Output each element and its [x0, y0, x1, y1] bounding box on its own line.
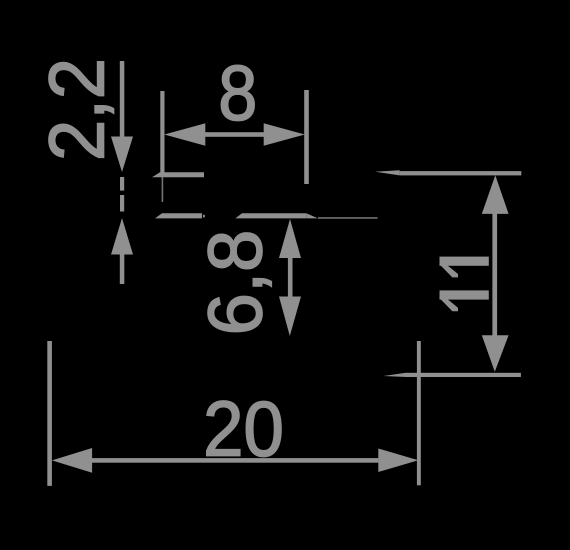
dim 11 top arrowhead [482, 175, 509, 214]
svg-text:6,8: 6,8 [194, 230, 279, 336]
dim 2,2 up arrowhead [111, 218, 133, 255]
wire dim 8 line [205, 132, 264, 137]
dim 8 right arrowhead [264, 123, 305, 145]
dim 8 left extension line [160, 91, 164, 177]
dim 11 bottom arrowhead [482, 335, 509, 372]
dim 20 right arrowhead [378, 449, 418, 473]
svg-text:2,2: 2,2 [34, 58, 121, 161]
dim 20 left extension line [47, 341, 52, 486]
edge stub A (top surface y=175) [152, 172, 204, 177]
dim 8 left extension thin lower part [162, 177, 164, 202]
wire dim 2,2 upper tail [120, 61, 125, 137]
dim 20 right extension line [417, 341, 421, 485]
edge line top-right (y=173) with taper [375, 170, 400, 175]
dim 20 left arrowhead [52, 448, 92, 473]
dimension label 11 digit 1 (rotated glyph: bar + flag) [439, 257, 489, 278]
edge line bottom-right (y=375) with taper [383, 373, 406, 377]
edge stub B right with taper [235, 213, 306, 218]
wire dim 2,2 middle segment upper [120, 177, 124, 191]
edge stub B thin tail [318, 217, 378, 219]
svg-text:8: 8 [218, 49, 257, 136]
dim 8 left arrowhead [164, 123, 205, 145]
dim 8 right extension line [304, 90, 309, 184]
wire dim 2,2 middle segment lower [120, 195, 124, 212]
wire dim 11 line [492, 213, 497, 336]
wire dim 20 line [92, 458, 378, 463]
wire dim 6,8 line [288, 257, 293, 297]
dim 6,8 up arrowhead [279, 219, 301, 258]
dim 2,2 down arrowhead [111, 137, 133, 173]
dimension label 11 digit 2 (rotated glyph: bar + flag) [439, 290, 489, 311]
wire dim 2,2 lower tail [120, 255, 125, 285]
edge stub B dot [203, 215, 205, 218]
dim 6,8 down arrowhead [279, 297, 301, 337]
edge stub B left (inner surface y=216) [155, 213, 202, 218]
